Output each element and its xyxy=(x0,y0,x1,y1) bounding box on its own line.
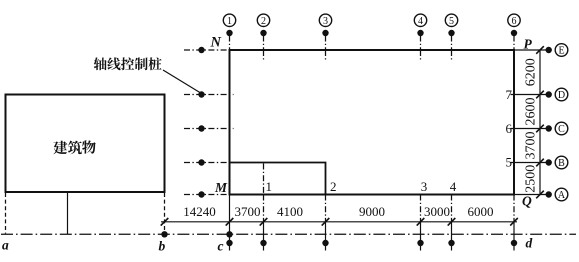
svg-text:P: P xyxy=(524,37,533,52)
svg-text:5: 5 xyxy=(506,155,513,170)
svg-text:7: 7 xyxy=(506,87,513,102)
svg-text:2600: 2600 xyxy=(524,98,539,126)
svg-text:3: 3 xyxy=(323,16,328,27)
svg-text:3: 3 xyxy=(421,179,428,194)
svg-text:b: b xyxy=(159,239,166,254)
svg-text:Q: Q xyxy=(522,194,532,209)
svg-text:2: 2 xyxy=(261,16,266,27)
svg-text:3000: 3000 xyxy=(424,204,450,219)
svg-text:B: B xyxy=(558,158,565,169)
svg-text:2500: 2500 xyxy=(524,165,539,193)
svg-text:C: C xyxy=(558,124,565,135)
svg-text:c: c xyxy=(218,239,224,254)
svg-text:9000: 9000 xyxy=(359,204,385,219)
svg-text:4: 4 xyxy=(418,16,423,27)
svg-text:A: A xyxy=(558,190,566,201)
svg-text:1: 1 xyxy=(227,16,232,27)
svg-text:N: N xyxy=(210,35,222,51)
svg-text:3700: 3700 xyxy=(235,204,261,219)
svg-text:14240: 14240 xyxy=(183,204,216,219)
svg-text:E: E xyxy=(558,46,564,57)
svg-text:4: 4 xyxy=(450,179,457,194)
svg-text:a: a xyxy=(2,238,9,253)
svg-text:M: M xyxy=(214,180,228,195)
svg-text:3700: 3700 xyxy=(524,132,539,160)
svg-text:2: 2 xyxy=(330,179,337,194)
svg-text:d: d xyxy=(526,236,533,251)
svg-text:D: D xyxy=(558,90,565,101)
svg-text:6: 6 xyxy=(512,16,517,27)
svg-text:1: 1 xyxy=(266,179,273,194)
svg-text:4100: 4100 xyxy=(277,204,303,219)
svg-text:5: 5 xyxy=(449,16,454,27)
svg-text:6000: 6000 xyxy=(468,204,494,219)
svg-text:6: 6 xyxy=(506,121,513,136)
svg-text:6200: 6200 xyxy=(524,58,539,86)
